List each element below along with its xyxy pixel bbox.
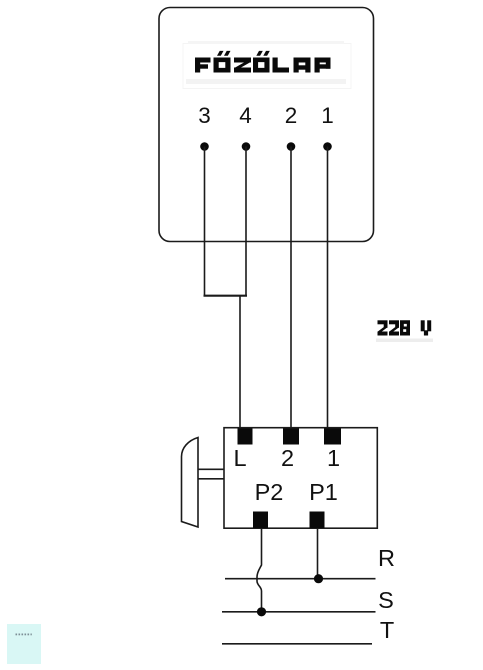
phase line T [222,643,372,645]
L [273,58,290,73]
wire from P2 down crossing R line (hop) to S line [257,528,262,612]
terminal dot 2 [287,142,296,151]
svg-text:P1: P1 [309,479,338,505]
svg-text:3: 3 [198,103,211,128]
A [294,58,311,73]
switch lever handle [182,438,199,528]
svg-text:1: 1 [321,103,334,128]
terminal L (black pad) [238,429,253,445]
wire from terminal 2 down to switch terminal 2 [290,147,292,430]
svg-text:1: 1 [327,445,340,471]
junction dot P2-S [257,607,266,616]
letter V [421,320,432,335]
terminal P2 (black pad) [253,512,268,529]
wire from terminal 1 down to switch terminal 1 [327,147,329,430]
Ő (second) [253,51,270,73]
connector shaft lever to box (bottom line) [198,478,224,480]
switch box U2 [224,428,377,529]
watermark box (bottom-left) [7,624,41,664]
value label FŐZŐLAP [195,51,331,73]
terminal dot 1 [323,142,332,151]
terminal P1 (black pad) [310,512,325,529]
phase line S [222,611,376,613]
wire from junction down to terminal L [239,296,241,429]
junction bar joining wires 3 and 4 [204,295,248,297]
P [315,58,331,73]
svg-text:L: L [233,445,246,471]
svg-text:R: R [378,545,395,571]
wire from terminal 4 down [245,147,247,297]
F [195,58,211,73]
Ő (first) [214,51,231,73]
svg-text:P2: P2 [255,479,284,505]
wire from terminal 3 down [204,147,206,297]
terminal dot 3 [200,142,209,151]
label frame around FŐZŐLAP (faint) [183,44,351,89]
junction dot P1-R [314,574,323,583]
svg-text:2: 2 [281,445,294,471]
digit 0 (slashed) [400,320,410,335]
svg-text:4: 4 [239,103,252,128]
digit 2 [378,320,388,335]
hotplate box U1 (FŐZŐLAP) [159,8,374,242]
svg-text:T: T [380,617,394,643]
terminal dot 4 [242,142,251,151]
terminal 2 (black pad) [283,429,299,445]
frame smudge under 220 V (faint) [376,339,433,343]
svg-text:2: 2 [285,103,298,128]
value label 220 V [376,320,433,342]
phase line R [225,578,376,580]
svg-text:S: S [378,587,394,613]
Z [234,58,251,73]
connector shaft lever to box (top line) [198,468,224,470]
terminal 1 (black pad) [324,429,341,445]
digit 2 [389,320,399,335]
wire from P1 down to R line [317,528,319,579]
